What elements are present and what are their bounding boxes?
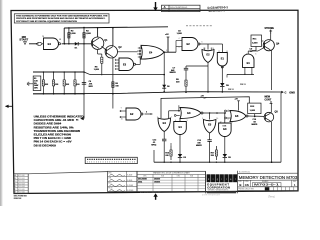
svg-text:8-11-69: 8-11-69: [127, 185, 133, 187]
svg-text:(Terry): (Terry): [268, 196, 275, 199]
svg-text:2N3009: 2N3009: [154, 179, 160, 181]
svg-text:CORPORATION: CORPORATION: [207, 186, 230, 190]
svg-text:C12: C12: [153, 140, 157, 142]
svg-text:C: C: [285, 90, 287, 94]
svg-text:8-8-69: 8-8-69: [127, 175, 132, 177]
svg-text:PIN 12: PIN 12: [228, 89, 234, 91]
svg-text:C6: C6: [89, 81, 91, 83]
svg-text:MMFD: MMFD: [170, 72, 177, 74]
svg-text:100: 100: [115, 86, 118, 88]
svg-text:EQUIPMENT: EQUIPMENT: [207, 183, 230, 187]
svg-text:CONT: CONT: [265, 98, 272, 101]
svg-text:1,000: 1,000: [94, 69, 100, 71]
svg-text:1,000: 1,000: [70, 33, 76, 35]
svg-text:MEMORY DETECTION M703: MEMORY DETECTION M703: [239, 175, 298, 180]
svg-text:R1: R1: [34, 78, 36, 80]
svg-text:A: A: [164, 5, 166, 9]
svg-text:100: 100: [197, 142, 200, 144]
svg-text:DEC FORM NO: DEC FORM NO: [14, 196, 28, 198]
svg-text:220: 220: [165, 155, 168, 157]
svg-text:2: 2: [60, 39, 61, 41]
svg-text:1.5K: 1.5K: [34, 80, 39, 82]
svg-text:R6: R6: [115, 83, 117, 85]
svg-text:MFD: MFD: [89, 86, 94, 88]
svg-text:MMFD: MMFD: [196, 145, 202, 147]
svg-text:C10: C10: [253, 119, 257, 121]
svg-text:START: START: [19, 38, 28, 42]
svg-text:100: 100: [76, 84, 79, 86]
svg-text:DEC3009B: DEC3009B: [138, 179, 147, 181]
svg-text:220: 220: [211, 155, 214, 157]
svg-text:D8 IS DEC4009: D8 IS DEC4009: [34, 143, 56, 147]
svg-text:1,000: 1,000: [86, 33, 92, 35]
svg-text:DRB 102: DRB 102: [14, 198, 22, 200]
svg-text:GND: GND: [289, 90, 295, 94]
svg-text:15K: 15K: [45, 84, 49, 86]
svg-text:3: 3: [146, 111, 147, 113]
svg-text:8-8-69: 8-8-69: [127, 180, 132, 182]
svg-text:15K: 15K: [66, 84, 70, 86]
svg-text:R16: R16: [165, 153, 169, 155]
svg-text:1N3606: 1N3606: [154, 181, 160, 183]
svg-text:MR: MR: [22, 35, 26, 39]
svg-text:10%: 10%: [34, 88, 38, 90]
svg-text:M703 REV A: M703 REV A: [208, 8, 224, 13]
svg-text:8-D-CS-M703-0-1: 8-D-CS-M703-0-1: [170, 7, 188, 9]
svg-text:ECO HISTORY: ECO HISTORY: [170, 10, 185, 12]
svg-text:PIN 13: PIN 13: [240, 84, 246, 86]
svg-text:M703-0-1: M703-0-1: [254, 183, 280, 187]
svg-text:5%: 5%: [34, 83, 37, 85]
svg-text:8-12-69: 8-12-69: [127, 190, 133, 192]
svg-text:C13: C13: [197, 140, 201, 142]
svg-text:100: 100: [55, 84, 58, 86]
svg-text:1,000: 1,000: [177, 33, 183, 35]
svg-text:1,000: 1,000: [250, 110, 256, 112]
svg-text:4 8TH 7TH 6TH 5TH: 4 8TH 7TH 6TH 5TH: [202, 194, 220, 196]
svg-text:R17: R17: [211, 153, 215, 155]
svg-text:MMFD: MMFD: [252, 124, 258, 126]
svg-text:1,000: 1,000: [252, 42, 258, 44]
svg-text:+5V: +5V: [165, 34, 169, 36]
svg-text:STROBE: STROBE: [265, 28, 275, 30]
